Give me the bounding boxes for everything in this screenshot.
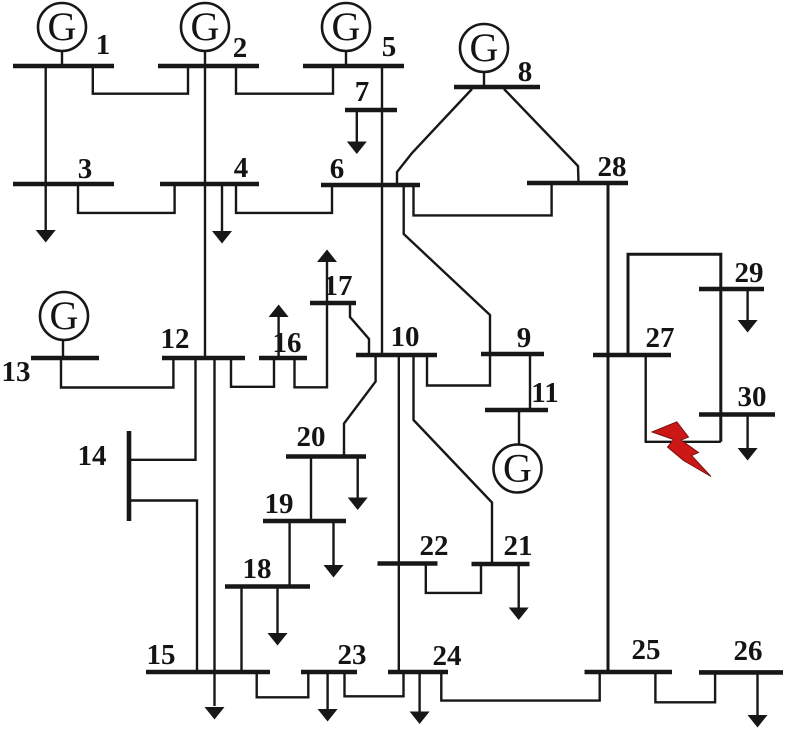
wire line 3-4	[78, 184, 175, 213]
wire line 25-26	[655, 672, 715, 702]
bus 29	[699, 257, 764, 289]
wire line 6-10	[381, 185, 383, 355]
svg-text:9: 9	[517, 322, 532, 354]
svg-text:10: 10	[391, 321, 420, 353]
svg-text:G: G	[503, 446, 532, 491]
bus 6	[321, 153, 420, 185]
wire line 2-4-12	[204, 51, 206, 358]
wire line 12-14	[129, 358, 196, 460]
svg-text:7: 7	[355, 76, 370, 108]
svg-text:27: 27	[646, 322, 675, 354]
load arrow bus 16 (up)	[269, 305, 289, 359]
svg-text:4: 4	[234, 152, 249, 184]
bus 13	[2, 356, 100, 388]
fault lightning bolt at line 27-30	[652, 422, 711, 477]
wire line 27-30	[646, 355, 721, 442]
wire line 10-17	[350, 303, 369, 355]
bus 4	[160, 152, 259, 184]
wire line 27-29	[628, 254, 721, 355]
bus 5	[303, 31, 404, 66]
svg-text:24: 24	[433, 640, 462, 672]
svg-text:20: 20	[297, 421, 326, 453]
bus 19	[263, 488, 346, 521]
wire line 5-7-6	[381, 66, 383, 185]
bus 3	[13, 153, 114, 185]
generator G13	[40, 292, 88, 358]
wire line 10-20	[344, 355, 376, 457]
wire line 28-27-25	[607, 183, 610, 672]
generator G2	[181, 3, 229, 51]
wire line 16-17	[295, 303, 328, 387]
bus 30	[699, 381, 775, 415]
svg-text:12: 12	[161, 323, 190, 355]
bus 2	[158, 32, 259, 66]
wire line 15-23	[257, 672, 309, 697]
bus 23	[301, 639, 367, 672]
wire line 18-19	[288, 521, 290, 587]
svg-text:1: 1	[96, 29, 111, 61]
wire line 23-24	[345, 672, 404, 696]
wire line 8-28	[504, 89, 579, 183]
svg-text:22: 22	[420, 530, 449, 562]
load arrow bus 29	[738, 289, 758, 333]
svg-text:G: G	[48, 4, 77, 49]
wire line 9-10	[427, 354, 490, 386]
svg-text:28: 28	[598, 151, 627, 183]
wire line 14-15	[129, 501, 197, 673]
svg-text:G: G	[332, 4, 361, 49]
wire line 29-30	[719, 289, 722, 442]
svg-text:11: 11	[531, 377, 558, 409]
svg-text:6: 6	[330, 153, 345, 185]
generator G11	[494, 410, 542, 493]
load arrow bus 30	[738, 415, 758, 461]
svg-text:8: 8	[518, 56, 533, 88]
bus 27	[593, 322, 675, 355]
load arrow bus 23	[318, 672, 338, 722]
svg-text:3: 3	[78, 153, 93, 185]
wire line 21-22	[426, 564, 481, 593]
bus 9	[481, 322, 544, 354]
wire line 4-6	[236, 184, 332, 213]
wire line 2-5	[236, 66, 333, 94]
wire line 9-11	[529, 354, 531, 410]
wire line 6-9	[404, 185, 490, 354]
bus 21	[472, 530, 533, 564]
svg-text:15: 15	[147, 639, 176, 671]
bus 14	[78, 431, 130, 521]
svg-text:21: 21	[504, 530, 533, 562]
svg-text:G: G	[191, 4, 220, 49]
wire line 19-20	[310, 457, 312, 522]
bus 10	[356, 321, 437, 355]
bus 28	[527, 151, 628, 183]
wire line 1-2	[93, 66, 188, 94]
bus 22	[378, 530, 449, 564]
wire line 12-15	[213, 358, 215, 706]
wire line 12-16	[231, 358, 274, 387]
load arrow bus 20	[348, 457, 368, 511]
svg-text:5: 5	[382, 31, 397, 63]
svg-text:13: 13	[2, 356, 31, 388]
bus 18	[225, 553, 310, 587]
wire line 10-21	[414, 355, 493, 564]
load arrow bus 18	[268, 587, 288, 646]
bus 8	[454, 56, 540, 88]
generator G1	[38, 3, 86, 66]
wire line 12-13	[61, 358, 173, 388]
svg-text:26: 26	[734, 635, 763, 667]
svg-text:G: G	[50, 293, 79, 338]
load arrow bus 7	[347, 110, 367, 154]
generator G8	[460, 24, 508, 87]
svg-text:30: 30	[738, 381, 767, 413]
svg-text:2: 2	[233, 32, 248, 64]
svg-text:25: 25	[632, 634, 661, 666]
svg-text:14: 14	[78, 440, 107, 472]
load arrow bus 26	[748, 672, 768, 727]
wire line 15-18	[240, 587, 242, 673]
load arrow bus 24	[410, 672, 430, 724]
bus 25	[585, 634, 673, 672]
load arrow bus 17 (up)	[317, 250, 337, 304]
bus 20	[286, 421, 366, 457]
load arrow bus 19	[324, 521, 344, 578]
bus 26	[699, 635, 783, 672]
svg-text:18: 18	[243, 553, 272, 585]
load arrow bus 4	[212, 184, 232, 244]
bus 7	[345, 76, 397, 110]
load arrow bus 21	[509, 564, 529, 620]
wire line 24-25	[441, 672, 599, 701]
svg-text:G: G	[470, 25, 499, 70]
bus 24	[388, 640, 462, 672]
load arrow bus 15	[205, 707, 225, 720]
bus 1	[13, 29, 114, 66]
wire line 1-3	[45, 66, 47, 230]
bus 16	[259, 327, 307, 359]
svg-text:23: 23	[338, 639, 367, 671]
load arrow bus 3	[36, 230, 56, 243]
wire line 8-6	[397, 89, 472, 184]
bus 15	[146, 639, 270, 672]
wire line 6-28	[414, 183, 552, 215]
svg-text:16: 16	[273, 327, 302, 359]
svg-text:19: 19	[265, 488, 294, 520]
bus 11	[485, 377, 559, 410]
generator G5	[322, 3, 370, 66]
svg-text:29: 29	[735, 257, 764, 289]
wire line 10-22-24	[398, 355, 400, 672]
bus 17	[310, 270, 356, 303]
bus 12	[161, 323, 246, 358]
